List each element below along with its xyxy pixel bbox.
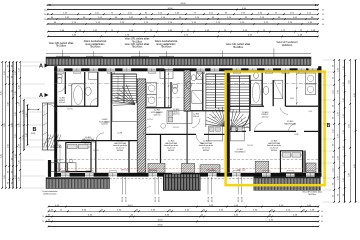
svg-text:KÖZLEKEDŐ: KÖZLEKEDŐ bbox=[235, 150, 246, 153]
sill line above bottom wall bbox=[54, 171, 321, 173]
washer-dryer stack U2 bbox=[147, 82, 157, 94]
svg-text:10,13: 10,13 bbox=[127, 205, 133, 207]
corner pier bottom-left bbox=[48, 160, 51, 177]
svg-text:95: 95 bbox=[11, 158, 13, 160]
svg-text:1,75: 1,75 bbox=[22, 135, 24, 139]
svg-text:28,30: 28,30 bbox=[157, 225, 163, 227]
svg-text:60/19/0: 60/19/0 bbox=[203, 150, 209, 152]
svg-text:2,90: 2,90 bbox=[8, 144, 10, 148]
cabinet U2 bbox=[160, 70, 173, 79]
svg-text:1,05: 1,05 bbox=[333, 129, 335, 133]
svg-text:1,25: 1,25 bbox=[19, 160, 21, 164]
deck strip bottom left top band bbox=[46, 178, 110, 180]
party wall U1-U2 hatched bbox=[137, 79, 146, 173]
svg-text:10: 10 bbox=[44, 19, 46, 21]
svg-text:1,05: 1,05 bbox=[333, 90, 335, 94]
svg-text:10: 10 bbox=[322, 14, 324, 16]
dimension line top tier7 bbox=[48, 35, 318, 37]
svg-text:78x140cm: 78x140cm bbox=[132, 47, 143, 49]
dimension line top tier3 bbox=[48, 13, 319, 15]
svg-text:1,25: 1,25 bbox=[19, 85, 21, 89]
svg-text:90/19/0: 90/19/0 bbox=[67, 109, 73, 111]
svg-text:+2,98: +2,98 bbox=[308, 111, 312, 113]
svg-text:90/19: 90/19 bbox=[238, 196, 240, 202]
right dim line 4 bbox=[349, 60, 351, 202]
windows in top wall bbox=[56, 68, 65, 71]
dimension line top overall bbox=[48, 4, 319, 6]
svg-text:10: 10 bbox=[42, 216, 44, 218]
wardrobe 2 bbox=[148, 164, 165, 173]
arrow end top overall left bbox=[48, 4, 51, 6]
svg-text:90/19: 90/19 bbox=[212, 196, 214, 202]
dimension line bottom tier1 bbox=[49, 206, 319, 208]
left dim line 3 bbox=[8, 62, 10, 188]
stair landing edges bbox=[112, 73, 137, 75]
wardrobe 3 bbox=[182, 164, 195, 173]
svg-text:90/19/0: 90/19/0 bbox=[147, 119, 153, 121]
terrace deck strip top bbox=[46, 57, 311, 65]
dimension line bottom tier2 bbox=[49, 210, 319, 212]
svg-text:60: 60 bbox=[11, 65, 13, 67]
window leader lines bottom bbox=[121, 177, 123, 195]
shaft U3 bbox=[196, 72, 203, 79]
extension lines right bbox=[323, 59, 334, 61]
bed U4 small bbox=[231, 126, 245, 141]
sill line under top wall bbox=[54, 71, 321, 73]
bathtub U1 bbox=[72, 84, 85, 107]
svg-text:1,66: 1,66 bbox=[338, 134, 340, 138]
svg-text:45: 45 bbox=[322, 19, 324, 21]
svg-text:90: 90 bbox=[8, 76, 10, 78]
left entry stair structure bbox=[42, 103, 47, 150]
svg-text:4,30 m2: 4,30 m2 bbox=[173, 114, 180, 116]
svg-text:90: 90 bbox=[11, 76, 13, 78]
left dim line 1 bbox=[1, 62, 3, 188]
svg-text:tetőkibúvó: tetőkibúvó bbox=[282, 44, 293, 47]
washbasin U4 bbox=[263, 86, 269, 94]
svg-text:90/19: 90/19 bbox=[126, 196, 128, 202]
exterior wall top bbox=[54, 68, 321, 71]
desk row U1 bbox=[51, 163, 59, 172]
yellow highlight rectangle (selected unit) bbox=[226, 72, 325, 186]
svg-text:4,45: 4,45 bbox=[1, 154, 3, 158]
svg-text:+2,98: +2,98 bbox=[228, 120, 233, 122]
svg-text:1,55: 1,55 bbox=[15, 112, 17, 116]
svg-text:HÁLÓSZOBA: HÁLÓSZOBA bbox=[284, 122, 296, 125]
svg-text:16,30: 16,30 bbox=[167, 8, 173, 10]
svg-text:(240): (240) bbox=[31, 133, 36, 135]
left small dim 240 bbox=[29, 109, 39, 111]
callout leader lines bbox=[62, 50, 64, 57]
svg-text:1,55: 1,55 bbox=[15, 71, 17, 75]
interior partition walls bbox=[64, 72, 66, 94]
svg-text:78x118cm: 78x118cm bbox=[308, 194, 317, 196]
dimension line top tier2 bbox=[48, 9, 319, 11]
svg-text:90: 90 bbox=[333, 183, 335, 185]
radiator marks bbox=[57, 72, 64, 74]
svg-text:1,16: 1,16 bbox=[19, 177, 21, 181]
svg-text:60: 60 bbox=[8, 65, 10, 67]
washbasin U3 bbox=[186, 81, 191, 88]
dimension line bottom tier5 bbox=[49, 225, 319, 227]
svg-text:90: 90 bbox=[333, 105, 335, 107]
svg-text:pm 102: pm 102 bbox=[238, 169, 247, 172]
svg-text:96: 96 bbox=[338, 194, 340, 196]
svg-text:90/19/0: 90/19/0 bbox=[247, 145, 253, 147]
svg-text:1,10: 1,10 bbox=[343, 82, 345, 86]
WC U4 bbox=[254, 73, 259, 79]
party wall U3-U4 (under highlight) bbox=[225, 72, 229, 173]
svg-text:90: 90 bbox=[11, 171, 13, 173]
deck strip bottom right bbox=[254, 177, 321, 191]
bathtub U4 bbox=[251, 80, 262, 104]
svg-text:Fálém deszkaburkolat: Fálém deszkaburkolat bbox=[84, 40, 107, 43]
svg-text:1,10: 1,10 bbox=[343, 130, 345, 134]
left dim secondary b bbox=[27, 105, 29, 145]
section marker A arrow top bbox=[45, 64, 49, 68]
dash line upper U3U4 bbox=[190, 83, 226, 85]
svg-text:Velux GPL tetőtéri ablak: Velux GPL tetőtéri ablak bbox=[125, 38, 150, 41]
left dim line 6 bbox=[19, 62, 21, 188]
svg-text:1,30: 1,30 bbox=[15, 91, 17, 95]
svg-text:pm 102: pm 102 bbox=[207, 169, 216, 172]
svg-text:78x140cm: 78x140cm bbox=[161, 47, 172, 49]
svg-text:90/19: 90/19 bbox=[126, 86, 130, 88]
svg-text:5,80: 5,80 bbox=[4, 123, 6, 127]
svg-text:+2,98: +2,98 bbox=[234, 120, 238, 122]
arrow end top overall right bbox=[315, 4, 318, 6]
svg-text:90/19: 90/19 bbox=[122, 196, 124, 202]
svg-text:10: 10 bbox=[42, 221, 44, 223]
svg-text:KÖZLEKEDŐ: KÖZLEKEDŐ bbox=[50, 146, 62, 149]
exterior wall right bbox=[318, 66, 321, 177]
svg-text:Velux GZL tetőtéri ablak: Velux GZL tetőtéri ablak bbox=[226, 43, 251, 46]
svg-text:6,04 m2: 6,04 m2 bbox=[101, 124, 107, 126]
svg-text:6,04 m2: 6,04 m2 bbox=[154, 114, 161, 116]
dimension line top tier6 bbox=[48, 31, 318, 33]
svg-text:90: 90 bbox=[333, 77, 335, 79]
svg-text:3,00: 3,00 bbox=[349, 80, 351, 84]
svg-text:A: A bbox=[39, 64, 43, 70]
svg-text:60/19/0: 60/19/0 bbox=[271, 150, 277, 152]
WC U1 bbox=[57, 77, 62, 83]
svg-text:90/19: 90/19 bbox=[290, 98, 294, 100]
svg-text:lécek padlásfödém: lécek padlásfödém bbox=[85, 44, 104, 46]
staircase U4 bbox=[229, 76, 231, 112]
balcony deck middle dark bbox=[164, 174, 201, 190]
staircase U1 bbox=[111, 74, 113, 103]
svg-text:1,36: 1,36 bbox=[338, 156, 340, 160]
svg-text:90: 90 bbox=[333, 117, 335, 119]
svg-text:60: 60 bbox=[11, 182, 13, 184]
svg-text:45: 45 bbox=[322, 10, 324, 12]
svg-text:1,10: 1,10 bbox=[343, 66, 345, 70]
terrace deck strip top bottom line bbox=[46, 64, 311, 66]
attic headroom dashed line bbox=[57, 159, 318, 161]
left dim line 2 bbox=[5, 62, 7, 188]
svg-text:90/19: 90/19 bbox=[155, 196, 157, 202]
bed U1 (bold outline) bbox=[66, 143, 91, 172]
svg-text:90: 90 bbox=[333, 195, 335, 197]
wardrobe 4 bbox=[200, 165, 220, 173]
windows in bottom wall bbox=[61, 173, 70, 177]
svg-text:4,85: 4,85 bbox=[354, 93, 356, 97]
section line A-A dashed bbox=[54, 83, 321, 85]
leader bottom right note bbox=[295, 185, 297, 191]
svg-text:95: 95 bbox=[11, 90, 13, 92]
svg-text:4,45: 4,45 bbox=[1, 91, 3, 95]
dimension line top tier4 bbox=[48, 18, 319, 20]
washbasin U1 bbox=[85, 87, 91, 95]
party wall U2-U3 hatched bbox=[184, 70, 190, 111]
svg-text:90/19/0: 90/19/0 bbox=[93, 150, 99, 152]
svg-text:1,40: 1,40 bbox=[26, 133, 28, 137]
exterior wall left bbox=[54, 66, 57, 177]
bed U4 (bold outline) bbox=[280, 151, 302, 173]
svg-text:1,10: 1,10 bbox=[343, 146, 345, 150]
svg-text:Velux GPL tetőtéri ablak: Velux GPL tetőtéri ablak bbox=[125, 43, 150, 46]
svg-text:1,55: 1,55 bbox=[4, 71, 6, 75]
svg-text:1,16: 1,16 bbox=[19, 68, 21, 72]
svg-text:Fálém deszkaburkolat: Fálém deszkaburkolat bbox=[155, 40, 178, 43]
svg-text:90: 90 bbox=[333, 144, 335, 146]
pillows bed U1 bold bbox=[68, 144, 78, 149]
svg-text:1,40: 1,40 bbox=[26, 113, 28, 117]
svg-text:14 db: 14 db bbox=[68, 85, 72, 87]
right dim line 2 bbox=[338, 60, 340, 202]
left dim line 5 bbox=[16, 62, 18, 188]
bed U3 bbox=[209, 126, 223, 141]
exterior wall bottom bbox=[54, 173, 321, 177]
svg-text:3,00: 3,00 bbox=[349, 124, 351, 128]
svg-text:1,55: 1,55 bbox=[15, 134, 17, 138]
svg-text:60: 60 bbox=[8, 182, 10, 184]
svg-text:1,30: 1,30 bbox=[15, 154, 17, 158]
svg-text:28.30: 28.30 bbox=[180, 3, 186, 5]
double bed U2 bbox=[167, 111, 192, 124]
svg-text:4,85: 4,85 bbox=[354, 164, 356, 168]
eaves dashed line bottom gap2 bbox=[200, 178, 254, 180]
svg-text:pm 102: pm 102 bbox=[121, 169, 130, 172]
eaves dashed line bottom gap1 bbox=[110, 178, 164, 180]
door swing arcs bbox=[58, 85, 65, 92]
WC U2 bbox=[173, 87, 178, 93]
svg-text:4,30 m2: 4,30 m2 bbox=[59, 102, 65, 104]
svg-text:1,80: 1,80 bbox=[19, 123, 21, 127]
svg-text:1,55: 1,55 bbox=[4, 175, 6, 179]
svg-text:78x118cm: 78x118cm bbox=[132, 41, 143, 43]
shower U3 bbox=[192, 91, 203, 104]
svg-text:1,10: 1,10 bbox=[343, 98, 345, 102]
svg-text:+2,98: +2,98 bbox=[212, 117, 216, 119]
left dim line 4 bbox=[12, 62, 14, 188]
svg-text:+2,98: +2,98 bbox=[294, 134, 299, 136]
svg-text:1,16: 1,16 bbox=[19, 144, 21, 148]
washer-dryer stack U4 bbox=[306, 73, 316, 84]
wardrobe 6 bbox=[306, 163, 316, 173]
svg-text:96: 96 bbox=[343, 194, 345, 196]
svg-text:Velux GPL tetőtéri ablak: Velux GPL tetőtéri ablak bbox=[49, 42, 74, 45]
svg-text:10: 10 bbox=[44, 14, 46, 16]
svg-text:1,66: 1,66 bbox=[338, 90, 340, 94]
terrace deck strip top dark band bbox=[46, 57, 311, 59]
svg-text:1,55: 1,55 bbox=[15, 175, 17, 179]
svg-text:1,16: 1,16 bbox=[19, 102, 21, 106]
svg-text:lécek padlásfödém: lécek padlásfödém bbox=[156, 44, 175, 46]
balcony deck middle inner line bbox=[165, 177, 199, 179]
svg-text:3,68: 3,68 bbox=[349, 173, 351, 177]
svg-text:90/19: 90/19 bbox=[208, 196, 210, 202]
deck strip bottom right top band bbox=[254, 177, 321, 179]
svg-text:40/60 lécezésen: 40/60 lécezésen bbox=[43, 193, 56, 195]
shower U4 bbox=[274, 80, 283, 98]
dimension line bottom tier3 bbox=[46, 216, 319, 218]
svg-text:2,90: 2,90 bbox=[8, 102, 10, 106]
svg-text:1,05: 1,05 bbox=[333, 168, 335, 172]
svg-text:90/19/0: 90/19/0 bbox=[173, 127, 179, 129]
right dim line 5 bbox=[355, 60, 357, 202]
svg-text:3,80: 3,80 bbox=[11, 123, 13, 127]
svg-text:45: 45 bbox=[321, 221, 323, 223]
pm dashed line red bbox=[57, 167, 318, 169]
svg-text:78x140cm: 78x140cm bbox=[90, 47, 101, 49]
svg-text:+2,98: +2,98 bbox=[156, 112, 161, 114]
svg-text:60/19/0: 60/19/0 bbox=[117, 150, 123, 152]
deck strip bottom left bbox=[46, 178, 110, 189]
svg-text:45: 45 bbox=[321, 216, 323, 218]
svg-text:4,30 m2: 4,30 m2 bbox=[262, 117, 269, 119]
svg-text:+2,98: +2,98 bbox=[104, 122, 108, 124]
svg-text:90: 90 bbox=[333, 65, 335, 67]
svg-text:1,36: 1,36 bbox=[338, 68, 340, 72]
svg-text:10: 10 bbox=[44, 10, 46, 12]
roof eave line top bbox=[46, 53, 311, 55]
svg-text:10: 10 bbox=[321, 211, 323, 213]
section marker A arrow lower bbox=[45, 93, 49, 97]
svg-text:Velux ULT rendszerű: Velux ULT rendszerű bbox=[276, 41, 298, 44]
cabinet U1 bbox=[89, 72, 98, 79]
svg-text:1,10: 1,10 bbox=[343, 178, 345, 182]
svg-text:30: 30 bbox=[322, 24, 324, 26]
dimension line top tier5 bbox=[48, 23, 319, 25]
staircase U3 bbox=[205, 74, 207, 108]
extension lines left bbox=[21, 61, 46, 63]
dimension line bottom tier4 bbox=[46, 220, 319, 222]
svg-text:90: 90 bbox=[8, 171, 10, 173]
right dim line 3 bbox=[344, 60, 346, 202]
svg-text:+2,98: +2,98 bbox=[117, 133, 123, 135]
svg-text:2,98 m2: 2,98 m2 bbox=[193, 116, 199, 118]
svg-text:1,36: 1,36 bbox=[338, 176, 340, 180]
wardrobe 5 bbox=[255, 161, 268, 173]
svg-text:1,10: 1,10 bbox=[343, 114, 345, 118]
svg-text:16,30: 16,30 bbox=[157, 220, 163, 222]
svg-text:90/19: 90/19 bbox=[242, 196, 244, 202]
svg-text:1,10: 1,10 bbox=[343, 162, 345, 166]
right dim line 1 bbox=[333, 60, 335, 202]
svg-text:60/19/0: 60/19/0 bbox=[168, 150, 174, 152]
interior mini dimension chains bbox=[168, 72, 170, 107]
svg-text:1,36: 1,36 bbox=[338, 112, 340, 116]
svg-text:90/19: 90/19 bbox=[159, 196, 161, 202]
WC U3 bbox=[191, 75, 196, 81]
left dim secondary a bbox=[23, 100, 25, 150]
party wall U2-U3 lower thin bbox=[186, 111, 188, 173]
svg-text:78x118cm: 78x118cm bbox=[56, 46, 67, 48]
svg-text:90: 90 bbox=[333, 156, 335, 158]
pillows bed U4 bold bbox=[282, 153, 291, 158]
svg-text:78x118cm: 78x118cm bbox=[233, 47, 244, 49]
dash line upper U2 bbox=[146, 97, 184, 99]
